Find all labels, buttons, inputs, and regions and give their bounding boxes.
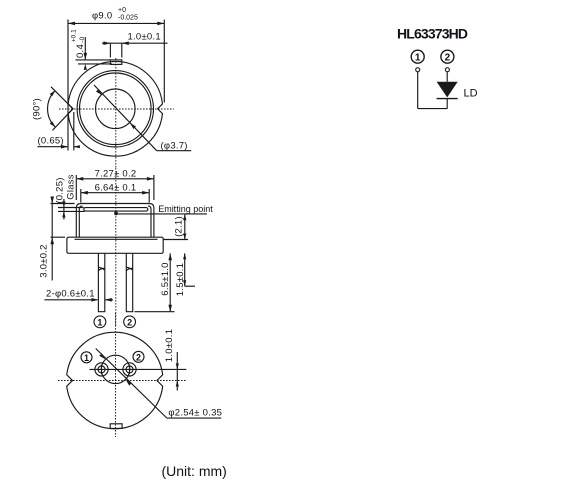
svg-text:1.0±0.1: 1.0±0.1 — [128, 32, 161, 43]
dim 6.5 ext line — [135, 311, 175, 313]
top view flange outline with notches — [68, 61, 162, 156]
svg-text:1: 1 — [415, 53, 421, 64]
svg-text:-0.025: -0.025 — [118, 15, 138, 22]
top view horizontal centerline — [59, 108, 174, 110]
svg-text:(Unit: mm): (Unit: mm) — [162, 463, 227, 479]
notch 90deg upper edge line — [51, 87, 73, 109]
dim phi9.0 line and arrows — [68, 22, 164, 26]
bottom view pin pitch circle — [101, 355, 129, 383]
side view cap inner wall left — [79, 206, 82, 237]
dim 1.0 bottom line — [176, 352, 178, 391]
wire bottom — [418, 108, 448, 110]
svg-text:+0: +0 — [118, 7, 126, 14]
svg-text:2: 2 — [127, 317, 132, 327]
side view pin 1 label — [94, 316, 106, 328]
dim 0.65 arrows — [61, 145, 80, 149]
dim 1.0 tab arrows — [103, 41, 128, 45]
circuit terminal 2 — [445, 68, 449, 72]
svg-text:3.0±0.2: 3.0±0.2 — [39, 244, 50, 277]
dim 6.5 line — [168, 253, 172, 311]
side view vertical centerline — [115, 168, 117, 327]
bottom view pin 2 — [123, 363, 136, 376]
wire pin2 to diode — [446, 72, 448, 82]
dim 3.0 line — [51, 198, 53, 281]
side view cap outline — [76, 204, 154, 238]
bottom view vertical centerline — [115, 313, 117, 437]
top view index tab — [110, 60, 121, 65]
svg-text:HL63373HD: HL63373HD — [397, 26, 468, 42]
dim 0.25 ext lines — [58, 208, 85, 212]
side view pin 2 — [126, 253, 133, 311]
dim 7.27 ext lines — [76, 175, 154, 200]
dim 0.25 arrows — [62, 202, 65, 218]
svg-text:1: 1 — [97, 317, 102, 327]
side view pin 1 — [98, 253, 105, 311]
top view vertical centerline — [115, 58, 117, 168]
svg-text:1.5±0.1: 1.5±0.1 — [175, 263, 186, 296]
dim 3.0 ext bottom — [51, 236, 66, 238]
dim 0.65 apex extension line — [73, 112, 75, 151]
notch 90deg lower edge line — [53, 109, 74, 131]
svg-text:φ9.0: φ9.0 — [92, 11, 112, 22]
laser diode LD symbol — [437, 82, 458, 99]
svg-text:LD: LD — [464, 87, 478, 99]
bottom view index tab — [110, 424, 122, 429]
svg-text:(90°): (90°) — [32, 98, 43, 120]
dim phi9.0 right extension line — [163, 20, 165, 103]
svg-text:Glass: Glass — [66, 174, 77, 200]
svg-text:6.5±1.0: 6.5±1.0 — [160, 262, 171, 295]
dim 1.5 ext line — [185, 285, 195, 287]
svg-text:2: 2 — [136, 352, 141, 362]
svg-text:(0.25): (0.25) — [54, 177, 65, 203]
bottom view pin 2 label — [133, 351, 144, 362]
svg-text:0.4: 0.4 — [75, 44, 86, 58]
side view cap inner wall right — [148, 206, 151, 237]
dim 0.65 line — [37, 146, 68, 148]
dim 6.64 line — [81, 191, 149, 195]
svg-text:(φ3.7): (φ3.7) — [161, 140, 188, 151]
top view window circle phi3.7 — [96, 89, 136, 129]
bottom view pin line — [90, 368, 187, 370]
svg-text:1: 1 — [84, 353, 89, 363]
top view cap outer circle — [77, 71, 153, 147]
dim 1.0 tab ext lines — [110, 43, 121, 57]
dim 0.25 line — [63, 199, 65, 220]
dim phi3.7 arrows — [96, 89, 136, 129]
svg-text:2-φ0.6±0.1: 2-φ0.6±0.1 — [46, 289, 95, 300]
dim phi2.54 underline — [167, 417, 221, 419]
svg-text:6.64± 0.1: 6.64± 0.1 — [95, 183, 137, 194]
dim 1.0 tab line — [102, 42, 168, 44]
dim phi2.54 arrows — [99, 353, 131, 385]
dim 3.0 ext top — [51, 203, 75, 205]
circuit pin 2 label — [441, 50, 454, 64]
top view cap inner circle — [80, 73, 152, 145]
dim 0.4 ext bottom — [78, 63, 112, 65]
svg-text:1.0±0.1: 1.0±0.1 — [164, 329, 175, 362]
bottom view pin 1 label — [81, 352, 92, 363]
svg-text:2: 2 — [445, 53, 451, 64]
svg-text:φ2.54± 0.35: φ2.54± 0.35 — [168, 407, 222, 418]
dim 2-phi0.6 leader — [44, 299, 97, 301]
bottom view pin 1 — [95, 363, 108, 376]
dim 2.1 ext line — [164, 239, 189, 241]
svg-text:Emitting point: Emitting point — [158, 204, 213, 214]
side view cap rim line — [75, 238, 158, 240]
circuit pin 1 label — [411, 50, 424, 64]
dim 2-phi0.6 tail — [105, 299, 113, 301]
emitting point leader — [116, 213, 207, 215]
dim 0.4 line — [84, 37, 86, 60]
dim 1.0 bottom arrows — [176, 363, 179, 386]
bottom view horizontal centerline — [58, 380, 186, 382]
svg-text:7.27± 0.2: 7.27± 0.2 — [95, 168, 137, 179]
wire pin1 down — [417, 72, 419, 109]
dim phi3.7 diagonal — [94, 85, 157, 151]
dim 7.27 line — [76, 177, 154, 181]
wire diode to bottom — [446, 99, 448, 109]
notch 90deg arc — [48, 90, 56, 127]
dim 0.65 tail — [74, 146, 80, 148]
svg-text:(0.65): (0.65) — [38, 136, 64, 147]
dim 1.5 line — [183, 253, 186, 286]
svg-text:(2.1): (2.1) — [174, 216, 185, 237]
dim 6.64 ext lines — [81, 189, 149, 203]
dim phi2.54 diagonal — [96, 349, 167, 419]
dim 0.4 ext top — [76, 59, 111, 61]
side view pin 2 label — [124, 316, 136, 328]
side view glass window — [84, 208, 148, 212]
dim phi3.7 underline — [157, 150, 192, 152]
bottom view flange outline with notches — [67, 332, 163, 429]
dim 3.0 arrows — [50, 197, 54, 245]
dim 2.1 line — [183, 214, 186, 239]
dim phi9.0 left extension line — [67, 20, 69, 151]
emitting point dot — [114, 212, 118, 216]
dim 2-phi0.6 arrows — [91, 298, 111, 302]
svg-text:-0: -0 — [79, 36, 86, 42]
side view flange — [67, 237, 163, 253]
dim 0.4 arrows — [84, 53, 88, 70]
circuit terminal 1 — [416, 68, 420, 72]
svg-text:+0.1: +0.1 — [71, 29, 78, 42]
